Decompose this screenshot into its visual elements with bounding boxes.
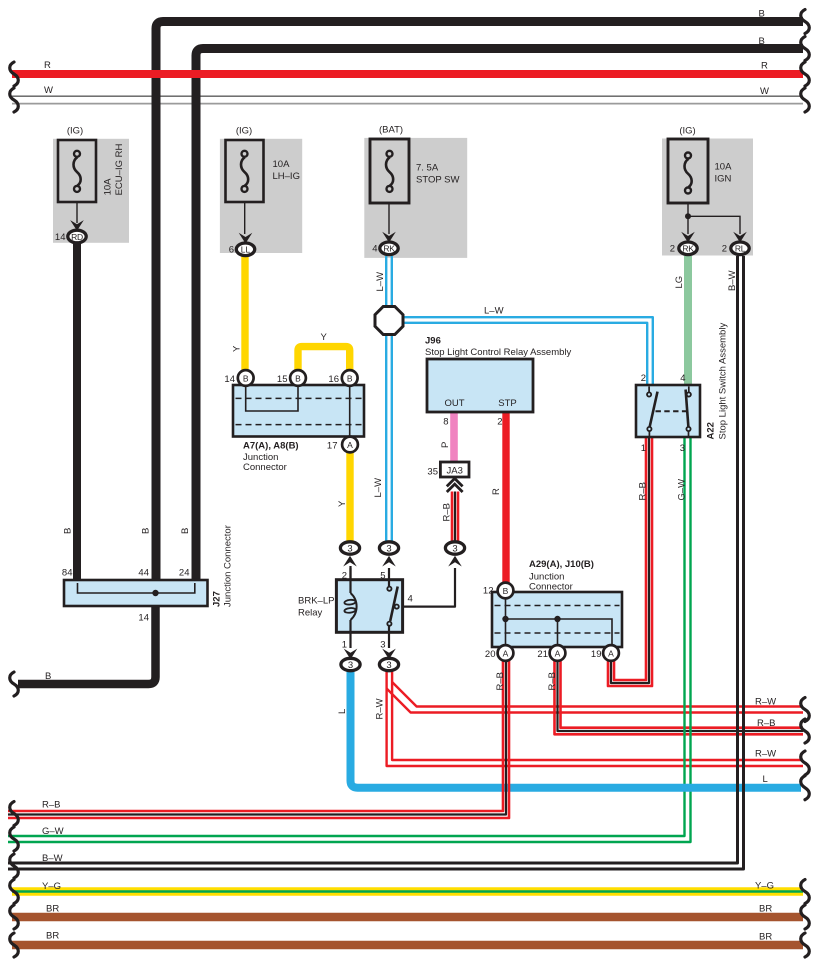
pin circle 14 B (A7) bbox=[238, 370, 254, 386]
svg-text:(IG): (IG) bbox=[67, 126, 83, 137]
wire R-B JA3 to connector 3 bbox=[451, 492, 454, 543]
fuse block shading IGN bbox=[662, 139, 753, 256]
wire R bus top bbox=[12, 70, 803, 78]
svg-text:LL: LL bbox=[241, 245, 251, 255]
svg-text:W: W bbox=[44, 85, 53, 96]
svg-text:OUT: OUT bbox=[444, 398, 464, 409]
svg-text:17: 17 bbox=[327, 441, 338, 452]
svg-text:2: 2 bbox=[722, 244, 727, 255]
svg-text:R–B: R–B bbox=[442, 503, 453, 521]
break symbol right BR2 bbox=[801, 933, 810, 957]
svg-text:14: 14 bbox=[224, 374, 235, 385]
wire P J96 OUT to JA3 bbox=[450, 412, 458, 462]
wire LG fuse IGN to A22 pin 4 bbox=[684, 256, 692, 385]
svg-text:84: 84 bbox=[62, 568, 73, 579]
svg-text:RL: RL bbox=[735, 244, 746, 254]
svg-text:BRK–LP: BRK–LP bbox=[298, 596, 334, 607]
fuse block shading ECU-IG RH bbox=[53, 139, 129, 243]
svg-text:B: B bbox=[63, 528, 74, 534]
relay BRK-LP bbox=[336, 568, 402, 648]
wire L thick blue relay pin 1 to right bus bbox=[351, 670, 802, 788]
svg-text:LH–IG: LH–IG bbox=[273, 171, 300, 182]
svg-text:12: 12 bbox=[483, 586, 494, 597]
svg-text:B: B bbox=[759, 36, 765, 47]
svg-text:Connector: Connector bbox=[529, 582, 573, 593]
svg-text:B: B bbox=[141, 528, 152, 534]
break symbol right R-W1 bbox=[801, 698, 810, 722]
wire G-W A22 pin 3 down to left bus bbox=[8, 437, 685, 836]
svg-text:B: B bbox=[243, 373, 249, 383]
break symbol right Y-G bbox=[801, 880, 810, 904]
svg-text:R–W: R–W bbox=[755, 697, 776, 708]
break symbol right R-B bbox=[801, 719, 810, 743]
svg-text:2: 2 bbox=[497, 417, 502, 428]
wire relay pin4 to connector 3 bbox=[399, 568, 455, 607]
svg-text:Stop Light Switch Assembly: Stop Light Switch Assembly bbox=[718, 323, 729, 440]
wire B from fuse ECU-IG RH to J27 pin 84 bbox=[73, 243, 81, 587]
svg-text:L–W: L–W bbox=[375, 272, 386, 292]
svg-text:Connector: Connector bbox=[243, 462, 287, 473]
wire BR bus 2 bbox=[12, 941, 803, 949]
svg-text:R–B: R–B bbox=[547, 672, 558, 690]
svg-text:R–W: R–W bbox=[755, 749, 776, 760]
svg-text:Y–G: Y–G bbox=[42, 881, 61, 892]
svg-text:6: 6 bbox=[229, 245, 234, 256]
svg-text:L–W: L–W bbox=[484, 306, 504, 317]
svg-text:A29(A), J10(B): A29(A), J10(B) bbox=[529, 559, 594, 570]
svg-text:14: 14 bbox=[138, 613, 149, 624]
svg-text:Stop Light Control Relay Assem: Stop Light Control Relay Assembly bbox=[425, 347, 572, 358]
svg-text:2: 2 bbox=[342, 571, 347, 582]
junction connector A29(A),J10(B) bbox=[492, 592, 622, 647]
break symbol right R-W2 bbox=[801, 751, 810, 775]
svg-text:L: L bbox=[763, 774, 768, 785]
svg-text:3: 3 bbox=[348, 660, 353, 671]
svg-text:4: 4 bbox=[372, 244, 377, 255]
svg-text:16: 16 bbox=[328, 374, 339, 385]
svg-text:5: 5 bbox=[380, 571, 385, 582]
wire B bus top 1 (horizontal + vertical to J27 pin 44) bbox=[156, 22, 803, 588]
svg-text:G–W: G–W bbox=[42, 826, 64, 837]
svg-text:L–W: L–W bbox=[373, 478, 384, 498]
terminal oval RD (fuse ECU-IG RH pin 14) bbox=[68, 220, 86, 243]
svg-text:IGN: IGN bbox=[715, 174, 732, 185]
switch A22 bbox=[636, 385, 700, 437]
svg-text:STOP SW: STOP SW bbox=[416, 175, 459, 186]
svg-text:L: L bbox=[337, 709, 348, 714]
terminal oval LL (fuse LH-IG pin 6) bbox=[236, 233, 254, 256]
wire B from J27 pin 14 to left edge bbox=[18, 594, 156, 685]
break symbol right B2 bbox=[801, 37, 810, 61]
wire B bus top 2 (horizontal + vertical to J27 pin 24) bbox=[196, 49, 803, 588]
svg-text:BR: BR bbox=[46, 904, 59, 915]
fuse IGN bbox=[668, 139, 740, 234]
svg-text:R: R bbox=[761, 61, 768, 72]
wire Y A7 pin 17 to connector 3 bbox=[346, 452, 353, 542]
svg-text:Junction Connector: Junction Connector bbox=[223, 525, 234, 607]
svg-text:A7(A), A8(B): A7(A), A8(B) bbox=[243, 441, 299, 452]
svg-text:7. 5A: 7. 5A bbox=[416, 163, 439, 174]
svg-text:4: 4 bbox=[680, 373, 685, 384]
svg-text:14: 14 bbox=[55, 232, 66, 243]
svg-text:W: W bbox=[760, 86, 769, 97]
wire B-W fuse IGN RL down to left bus bbox=[8, 256, 738, 863]
svg-text:A: A bbox=[555, 648, 561, 658]
svg-text:A: A bbox=[503, 648, 509, 658]
svg-text:LG: LG bbox=[674, 276, 685, 289]
svg-text:24: 24 bbox=[179, 568, 190, 579]
svg-text:Relay: Relay bbox=[298, 608, 323, 619]
svg-text:3: 3 bbox=[680, 443, 685, 454]
break symbol right W bbox=[801, 88, 810, 112]
wire R-B A22 pin 1 down to A29 pin 19 (U shape) bbox=[614, 437, 646, 680]
svg-text:R–B: R–B bbox=[495, 672, 506, 690]
svg-text:P: P bbox=[440, 442, 451, 448]
pin circle 21 A (A29) bbox=[550, 645, 566, 661]
svg-text:(IG): (IG) bbox=[236, 126, 252, 137]
connector 3 oval (relay pin 1 / L wire) bbox=[341, 649, 360, 672]
svg-text:J27: J27 bbox=[212, 591, 223, 607]
svg-text:R: R bbox=[491, 488, 502, 495]
svg-text:BR: BR bbox=[759, 904, 772, 915]
svg-text:ECU–IG RH: ECU–IG RH bbox=[114, 144, 125, 196]
svg-text:Y–G: Y–G bbox=[755, 881, 774, 892]
svg-text:15: 15 bbox=[277, 374, 288, 385]
terminal oval RK (fuse STOP SW pin 4) bbox=[380, 232, 398, 255]
svg-text:(BAT): (BAT) bbox=[379, 125, 403, 136]
svg-text:1: 1 bbox=[641, 443, 646, 454]
svg-text:3: 3 bbox=[386, 544, 391, 555]
wire R-B A29 pin 20 to left bus bbox=[8, 659, 503, 811]
svg-text:STP: STP bbox=[498, 398, 516, 409]
svg-text:10A: 10A bbox=[102, 178, 113, 196]
wire W bus top (double thin line) bbox=[12, 95, 803, 97]
wire Y fuse LH-IG to A7 pin 14 bbox=[241, 256, 248, 371]
svg-text:R–B: R–B bbox=[42, 800, 60, 811]
wire L-W octagon node down to connector 3 bbox=[385, 334, 387, 542]
svg-text:4: 4 bbox=[408, 594, 413, 605]
svg-text:B–W: B–W bbox=[727, 270, 738, 291]
svg-text:3: 3 bbox=[386, 660, 391, 671]
svg-text:8: 8 bbox=[443, 417, 448, 428]
svg-text:B: B bbox=[45, 671, 51, 682]
fuse block shading LH-IG bbox=[220, 139, 302, 253]
svg-text:(IG): (IG) bbox=[679, 126, 695, 137]
wire L-W fuse STOP SW down to octagon node bbox=[385, 256, 387, 307]
svg-text:21: 21 bbox=[537, 649, 548, 660]
svg-text:G–W: G–W bbox=[677, 479, 688, 501]
svg-text:B: B bbox=[759, 9, 765, 20]
svg-text:35: 35 bbox=[427, 467, 438, 478]
pin circle 15 B (A7) bbox=[290, 370, 306, 386]
wire L-W octagon node right and down to A22 pin 2 bbox=[403, 317, 653, 385]
connector 3 oval (Y wire) bbox=[340, 542, 359, 580]
node octagon J/B junction bbox=[375, 307, 403, 335]
svg-text:3: 3 bbox=[347, 544, 352, 555]
break symbol left R bbox=[10, 62, 19, 86]
junction connector A7(A),A8(B) bbox=[233, 385, 364, 437]
break symbol left R-B bbox=[10, 802, 19, 826]
wire BR bus 1 bbox=[12, 913, 803, 921]
pin circle 17 A (A7) bbox=[342, 437, 358, 453]
pin circle 16 B (A7) bbox=[342, 370, 358, 386]
break symbol right R bbox=[801, 62, 810, 86]
connector 3 oval (relay pin 3 / R-W wire) bbox=[379, 649, 398, 672]
svg-text:RK: RK bbox=[682, 244, 694, 254]
break symbol left BR1 bbox=[10, 905, 19, 929]
svg-text:J96: J96 bbox=[425, 336, 441, 347]
svg-text:B: B bbox=[347, 373, 353, 383]
svg-text:RD: RD bbox=[71, 232, 83, 242]
wire R-B A29 pin 21 to right bus bbox=[561, 659, 804, 728]
connector 3 oval (R-B wire to relay pin 4) bbox=[445, 542, 464, 567]
junction JA3 bbox=[440, 462, 469, 492]
wire R-W from relay pin 3: vertical pair, diagonal branch, two buses bbox=[392, 671, 803, 760]
svg-text:BR: BR bbox=[46, 931, 59, 942]
svg-text:B–W: B–W bbox=[42, 853, 63, 864]
svg-text:Y: Y bbox=[232, 345, 243, 352]
svg-text:R: R bbox=[44, 60, 51, 71]
svg-text:R–B: R–B bbox=[638, 482, 649, 500]
svg-text:2: 2 bbox=[670, 244, 675, 255]
fuse LH-IG bbox=[226, 140, 264, 234]
svg-text:RK: RK bbox=[383, 244, 395, 254]
terminal oval RL (fuse IGN pin 2 right) bbox=[731, 232, 749, 255]
connector 3 oval (L-W wire) bbox=[379, 542, 398, 567]
pin circle 12 B (A29) bbox=[498, 583, 514, 599]
fuse block shading STOP SW bbox=[364, 138, 467, 258]
svg-text:Y: Y bbox=[321, 332, 328, 343]
break symbol right B1 bbox=[801, 10, 810, 34]
svg-text:10A: 10A bbox=[715, 162, 733, 173]
break symbol left Y-G bbox=[10, 880, 19, 904]
break symbol left B bbox=[10, 672, 19, 696]
svg-text:BR: BR bbox=[759, 932, 772, 943]
svg-text:10A: 10A bbox=[273, 159, 291, 170]
svg-text:2: 2 bbox=[641, 373, 646, 384]
relay assembly J96 bbox=[427, 359, 533, 412]
svg-text:1: 1 bbox=[342, 640, 347, 651]
wire R J96 STP to A29 pin 12 bbox=[502, 412, 509, 583]
svg-text:3: 3 bbox=[380, 640, 385, 651]
svg-text:JA3: JA3 bbox=[447, 465, 463, 476]
break symbol left G-W bbox=[10, 827, 19, 851]
fuse ECU-IG RH bbox=[58, 140, 96, 223]
break symbol right L bbox=[801, 776, 810, 800]
svg-text:B: B bbox=[295, 373, 301, 383]
svg-text:R–W: R–W bbox=[375, 698, 386, 719]
pin circle 20 A (A29) bbox=[498, 645, 514, 661]
svg-text:Y: Y bbox=[337, 500, 348, 507]
wire Y-G bus bottom bbox=[12, 887, 803, 896]
break symbol left W bbox=[10, 88, 19, 112]
svg-text:19: 19 bbox=[591, 649, 602, 660]
svg-text:B: B bbox=[180, 528, 191, 534]
svg-text:A: A bbox=[347, 440, 353, 450]
svg-text:20: 20 bbox=[485, 649, 496, 660]
svg-text:44: 44 bbox=[138, 568, 149, 579]
wire Y bridge A7 pin 15 to pin 16 bbox=[298, 347, 350, 371]
break symbol left B-W bbox=[10, 854, 19, 878]
break symbol right BR1 bbox=[801, 905, 810, 929]
svg-text:A22: A22 bbox=[706, 422, 717, 439]
svg-text:B: B bbox=[503, 586, 509, 596]
svg-text:R–B: R–B bbox=[757, 718, 775, 729]
terminal oval RK (fuse IGN pin 2) bbox=[679, 232, 697, 255]
svg-text:3: 3 bbox=[452, 544, 457, 555]
fuse STOP SW bbox=[370, 139, 409, 234]
junction connector J27 bbox=[64, 580, 208, 606]
svg-text:A: A bbox=[608, 648, 614, 658]
pin circle 19 A (A29) bbox=[603, 645, 619, 661]
break symbol left BR2 bbox=[10, 933, 19, 957]
